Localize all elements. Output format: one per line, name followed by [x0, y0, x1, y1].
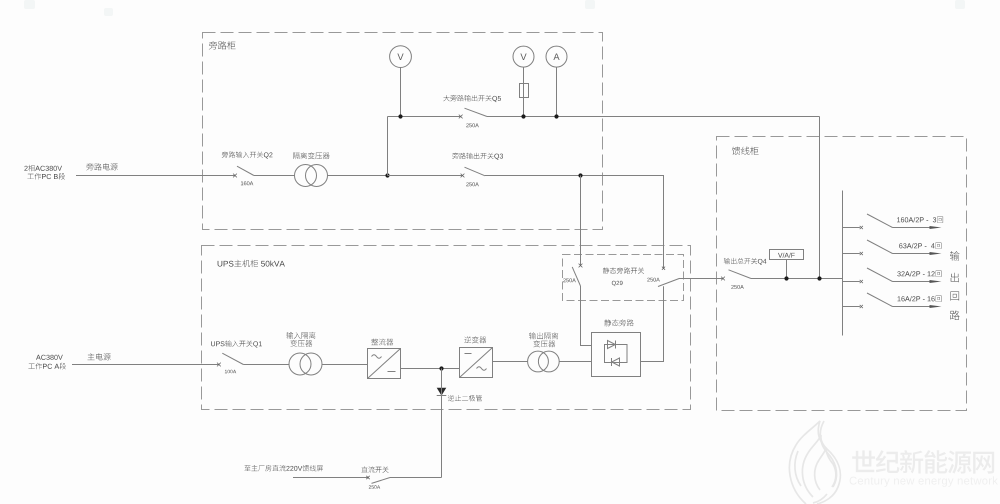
branch switch 2 [843, 240, 942, 255]
switch Q3 label [452, 153, 503, 160]
wire inverter to T3 [493, 361, 528, 363]
feeder cabinet label [732, 147, 759, 155]
switch Q4 rating [731, 285, 744, 289]
feeder bus bar [842, 191, 844, 336]
Q29 left pole switch [572, 264, 582, 286]
voltmeter V2 [513, 46, 534, 116]
wire DC horizontal right [390, 477, 442, 479]
watermark english text [850, 476, 998, 487]
source A label [28, 355, 66, 370]
bypass source label 旁路电源 [86, 163, 117, 170]
switch Q3 [461, 167, 485, 177]
bypass cabinet label [209, 41, 236, 49]
branch switch 4 [843, 293, 942, 308]
wire DC down [441, 369, 443, 478]
DC switch rating [369, 485, 380, 489]
wire Q29 to Q4 [680, 278, 724, 280]
static switch name Q29 [612, 281, 623, 286]
Q29 right pole switch [658, 267, 680, 287]
switch Q5 rating [466, 123, 479, 127]
branch label 4 [898, 296, 942, 302]
blocking diode D1 [437, 388, 447, 396]
fuse F1 [520, 84, 529, 98]
input transformer T2 [289, 353, 322, 375]
voltmeter V1 junction dot [398, 114, 402, 118]
output transformer T3 [528, 351, 560, 372]
input transformer label [286, 332, 315, 347]
switch Q4 label [724, 258, 767, 265]
DC switch [366, 476, 390, 484]
isolation transformer T1 [295, 165, 328, 187]
node2 junction dot [578, 173, 582, 177]
Q29 right rating [647, 278, 660, 282]
wire node1 to Q3 [388, 175, 463, 177]
branch label 3 [897, 271, 941, 277]
static bypass label 静态旁路 [604, 319, 633, 326]
ammeter A1 junction dot [554, 114, 558, 118]
DC node junction dot [439, 366, 443, 370]
drop wire top bus to output line [819, 117, 821, 279]
branch switch 1 [843, 214, 942, 229]
switch Q2 label [222, 151, 273, 158]
Q29 left pole wire [580, 176, 582, 266]
switch Q5 label [443, 95, 501, 102]
UPS cabinet label [218, 260, 285, 267]
DC feeder label [244, 465, 323, 471]
wire Q2 to T1 [254, 175, 295, 177]
top bus wire left [388, 116, 461, 118]
wire static bypass to Q29 right [641, 286, 664, 361]
switch Q4 [721, 270, 751, 281]
wire main feed [72, 364, 219, 366]
top bus wire right [487, 116, 820, 118]
inverter U2 [460, 348, 493, 378]
static bypass thyristor loop [605, 341, 628, 367]
output circuits vertical label 输出回路 [950, 251, 960, 320]
isolation transformer label 隔离变压器 [293, 152, 330, 159]
rectifier label 整流器 [371, 339, 393, 346]
switch Q1 label [211, 340, 262, 347]
switch Q5 [459, 108, 487, 118]
source B label [24, 165, 65, 180]
wire DC horizontal left [293, 477, 368, 479]
static bypass unit box [592, 333, 641, 377]
wire Q3 to corner and down [485, 176, 664, 268]
main source label 主电源 [88, 353, 111, 360]
branch label 1 [897, 217, 943, 223]
switch Q3 rating [466, 182, 479, 186]
riser wire node1 to top bus [387, 117, 389, 176]
DC switch label 直流开关 [361, 466, 388, 472]
bypass cabinet box 旁路柜 [203, 33, 603, 230]
static switch label [603, 267, 644, 273]
voltmeter V2 junction dot [521, 114, 525, 118]
wire T2 to rectifier [322, 364, 368, 366]
wire Q4 to bus [751, 278, 843, 280]
branch switch 3 [843, 268, 942, 283]
switch Q1 [217, 353, 243, 366]
static bypass switch box [563, 255, 684, 301]
inverter label 逆变器 [464, 336, 486, 343]
wire Q1 to T2 [243, 364, 289, 366]
switch Q2 rating [241, 181, 253, 185]
feeder cabinet box 馈线柜 [717, 137, 967, 411]
Q29 left pole lower wire [581, 286, 592, 346]
rectifier U1 [368, 349, 401, 379]
wire bypass feed [76, 175, 235, 177]
branch label 2 [899, 243, 941, 249]
VAF junction dot [784, 276, 788, 280]
switch Q2 [233, 166, 254, 177]
switch Q1 rating [225, 370, 236, 374]
Q29 left rating [563, 278, 576, 282]
watermark flame logo [789, 421, 840, 504]
UPS cabinet box UPS主机柜 [202, 246, 691, 410]
watermark chinese text [852, 450, 994, 474]
drop junction dot [817, 276, 821, 280]
blocking diode label 逆止二极管 [448, 395, 482, 401]
voltmeter V1 [390, 46, 412, 117]
wire rectifier to inverter [401, 368, 460, 370]
faint top specks [24, 0, 965, 16]
node1 junction dot [385, 173, 389, 177]
wire T3 to static bypass [559, 361, 591, 363]
output transformer label [529, 332, 558, 347]
ammeter A1 [546, 46, 567, 116]
wire T1 to node1 [328, 175, 388, 177]
VAF meter box [770, 250, 804, 279]
